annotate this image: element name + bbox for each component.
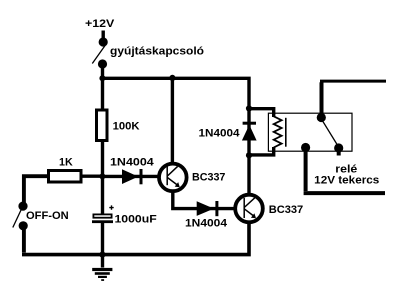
svg-text:1N4004: 1N4004 xyxy=(185,218,228,230)
svg-text:1N4004: 1N4004 xyxy=(110,157,154,169)
svg-text:OFF-ON: OFF-ON xyxy=(26,210,69,222)
svg-text:BC337: BC337 xyxy=(269,204,304,216)
svg-text:1000uF: 1000uF xyxy=(115,213,157,225)
svg-text:+12V: +12V xyxy=(85,18,115,30)
svg-text:100K: 100K xyxy=(113,120,141,132)
svg-text:relé: relé xyxy=(335,163,357,175)
svg-text:1N4004: 1N4004 xyxy=(199,128,241,140)
svg-text:BC337: BC337 xyxy=(192,172,225,184)
svg-text:gyújtáskapcsoló: gyújtáskapcsoló xyxy=(110,46,204,58)
svg-text:12V tekercs: 12V tekercs xyxy=(314,175,379,187)
svg-text:1K: 1K xyxy=(59,157,73,169)
